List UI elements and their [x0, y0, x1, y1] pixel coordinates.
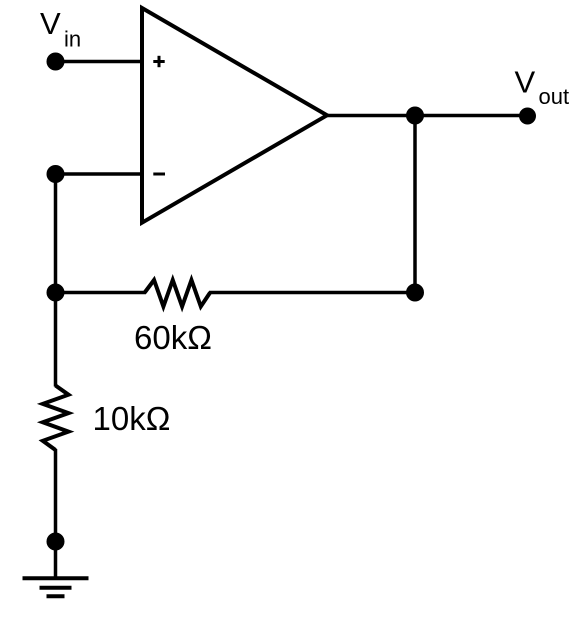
wire: feedback node down to resistor R2 top lead — [54, 293, 58, 387]
pin - (inverting input marker) — [153, 173, 165, 176]
svg-text:V: V — [40, 6, 61, 41]
svg-text:10kΩ: 10kΩ — [93, 400, 171, 437]
node Vout terminal dot — [519, 108, 536, 125]
wire: Vin node to op-amp + input — [56, 60, 143, 64]
resistor R1 60k zigzag — [145, 280, 210, 307]
label Vin — [40, 6, 81, 52]
label Vout — [515, 65, 570, 110]
node ground junction dot — [47, 533, 65, 551]
node inverting-input junction dot — [47, 165, 65, 183]
svg-text:in: in — [64, 27, 81, 52]
node feedback right junction dot — [406, 284, 424, 302]
node Vin terminal dot — [47, 53, 65, 71]
ground — [23, 578, 89, 596]
pin + (non-inverting input marker) — [153, 56, 164, 67]
wire: output from op-amp apex to Vout — [327, 114, 528, 118]
op-amp U1 — [142, 8, 327, 223]
wire: inverting input horizontal — [56, 172, 143, 176]
wire: resistor R2 bottom lead to ground — [54, 449, 58, 578]
svg-text:60kΩ: 60kΩ — [134, 319, 212, 356]
wire: feedback vertical from output node — [413, 116, 417, 293]
svg-text:out: out — [539, 84, 570, 109]
svg-text:V: V — [515, 65, 536, 100]
wire: resistor R1 right lead to feedback node — [209, 291, 415, 295]
resistor R2 10k zigzag — [43, 386, 69, 451]
node output junction dot — [406, 107, 424, 125]
node feedback junction dot A — [47, 284, 65, 302]
wire: feedback node to resistor R1 left lead — [56, 291, 147, 295]
wire: inverting input down to feedback node — [54, 174, 58, 293]
